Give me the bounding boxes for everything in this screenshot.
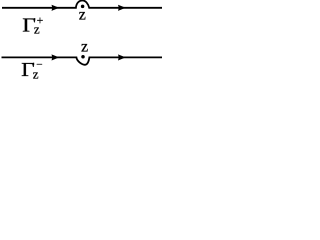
- Gamma_z^+ arm-end drop serif: [34, 18, 35, 21]
- svg-text:−: −: [36, 59, 42, 71]
- svg-text:+: +: [37, 13, 44, 27]
- contour line Gamma_z^- (lower) with bump below point z: [2, 57, 163, 64]
- Gamma_z^- arm-end drop serif: [33, 63, 34, 65]
- svg-text:z: z: [79, 6, 86, 23]
- arrowhead on upper contour (left segment): [52, 5, 60, 11]
- point z marker (dot) on upper contour: [81, 5, 85, 8]
- svg-text:z: z: [81, 38, 88, 55]
- arrowhead on upper contour (right segment): [118, 5, 126, 11]
- point z marker (dot) on lower contour: [81, 55, 85, 59]
- contour line Gamma_z^+ (upper) with bump above point z: [2, 0, 162, 7]
- arrowhead on lower contour (left segment): [52, 54, 60, 60]
- arrowhead on lower contour (right segment): [118, 54, 126, 60]
